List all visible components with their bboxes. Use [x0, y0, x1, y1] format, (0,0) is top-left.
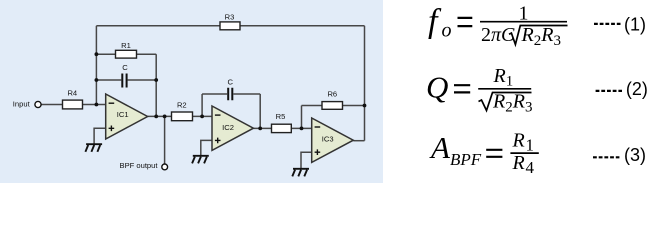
- junction C2 branch / R2 output: [200, 115, 204, 119]
- op-amp IC3: [312, 118, 354, 162]
- junction R5 / R6 branch: [300, 126, 304, 130]
- svg-text:(2): (2): [626, 79, 648, 99]
- capacitor C1: [122, 63, 128, 88]
- wire R6 branch: [302, 105, 365, 107]
- op-amp IC1 non-inverting pin +: [109, 126, 115, 132]
- svg-text:R2: R2: [177, 101, 187, 110]
- svg-text:o: o: [442, 20, 452, 42]
- wire IC1 plus to ground: [94, 128, 106, 143]
- wire C2 branch left: [202, 93, 227, 95]
- resistor R1: [116, 41, 137, 58]
- wire C2 branch right vertical: [259, 94, 261, 128]
- wire R1 branch: [96, 53, 156, 55]
- svg-text:(3): (3): [624, 145, 646, 165]
- capacitor C1 plates: [122, 74, 126, 88]
- svg-text:R3: R3: [225, 13, 235, 22]
- svg-text:R1: R1: [493, 65, 514, 90]
- op-amp IC1 inverting pin -: [109, 102, 115, 104]
- svg-text:BPF: BPF: [450, 150, 482, 169]
- junction R4 / IC1 inverting input: [95, 103, 99, 107]
- formulas panel: [400, 0, 660, 183]
- resistor R6: [322, 90, 343, 110]
- svg-text:R1: R1: [512, 129, 535, 154]
- svg-text:R4: R4: [67, 89, 77, 98]
- circuit panel background: [0, 0, 383, 183]
- resistor R3: [220, 13, 240, 30]
- junction R6 / right vertical: [363, 104, 367, 108]
- wire IC1 output row: [148, 115, 212, 117]
- equation 3: A_BPF = R1/R4: [429, 129, 646, 177]
- wire right vertical: [364, 26, 366, 141]
- ground IC2: [192, 156, 209, 164]
- op-amp IC2 body: [212, 106, 253, 150]
- svg-text:BPF output: BPF output: [120, 161, 159, 170]
- resistor R5: [272, 112, 292, 132]
- op-amp IC1: [106, 94, 148, 139]
- ground IC1: [85, 144, 102, 152]
- svg-text:IC2: IC2: [222, 123, 234, 132]
- svg-text:C: C: [122, 63, 128, 72]
- capacitor C2: [227, 77, 233, 100]
- wire input to IC1: [41, 104, 105, 106]
- junction IC1 output / feedback: [154, 115, 158, 119]
- ground IC1 teeth: [85, 145, 100, 152]
- wire BPF output drop: [164, 116, 166, 163]
- svg-text:2πC: 2πC: [481, 24, 515, 46]
- wire left vertical: [95, 26, 97, 105]
- op-amp IC3 non-inverting pin +: [315, 149, 321, 155]
- ground IC3: [292, 169, 309, 177]
- equation 2: Q = R1/sqrt(R2R3): [426, 65, 648, 116]
- wire IC3 plus to ground: [301, 152, 312, 168]
- svg-text:R5: R5: [276, 112, 286, 121]
- op-amp IC3 body: [312, 118, 354, 162]
- wire C1 branch left: [96, 79, 121, 81]
- svg-text:Q: Q: [426, 70, 448, 105]
- svg-text:R2R3: R2R3: [521, 24, 561, 49]
- wire top R3 run: [96, 25, 364, 27]
- svg-text:IC3: IC3: [322, 135, 334, 144]
- svg-text:A: A: [429, 130, 451, 165]
- op-amp IC2 non-inverting pin +: [215, 138, 221, 144]
- junction R1 branch / left vertical: [95, 52, 99, 56]
- ground IC2 teeth: [192, 157, 207, 164]
- svg-text:R4: R4: [512, 152, 535, 177]
- wire C2 branch right: [233, 93, 260, 95]
- wire IC2 output row: [253, 127, 311, 129]
- op-amp IC3 inverting pin -: [315, 126, 321, 128]
- resistor R2: [172, 101, 193, 121]
- junction IC2 output / C2 branch: [258, 126, 262, 130]
- capacitor C2 plates: [228, 88, 232, 101]
- svg-text:1: 1: [519, 2, 529, 24]
- svg-text:(1): (1): [624, 14, 646, 34]
- equation 1: fo = 1/(2piC sqrt(R2R3)): [428, 2, 646, 48]
- op-amp IC1 body: [106, 94, 148, 139]
- ground IC2 bar: [193, 155, 209, 157]
- wire IC2 plus to ground: [201, 140, 212, 155]
- op-amp IC2: [212, 106, 253, 150]
- input terminal: [35, 101, 41, 107]
- ground IC1 bar: [86, 143, 102, 145]
- wire C2 branch left vertical: [201, 94, 203, 116]
- ground IC3 teeth: [292, 170, 307, 177]
- wire IC3 output: [353, 140, 364, 142]
- svg-text:R6: R6: [327, 90, 337, 99]
- svg-text:C: C: [227, 77, 233, 86]
- ground IC3 bar: [293, 168, 309, 170]
- op-amp IC2 inverting pin -: [215, 114, 221, 116]
- junction BPF output tap: [163, 115, 167, 119]
- svg-text:Input: Input: [13, 100, 31, 109]
- svg-text:R2R3: R2R3: [492, 91, 532, 116]
- resistor R4: [63, 89, 83, 109]
- junction C1 branch / left vertical: [95, 78, 99, 82]
- svg-text:IC1: IC1: [117, 110, 129, 119]
- junction C1 branch / feedback vertical: [154, 78, 158, 82]
- wire C1 branch right: [128, 79, 157, 81]
- wire R6 branch left vertical: [301, 106, 303, 129]
- BPF output terminal: [162, 164, 168, 170]
- svg-text:R1: R1: [121, 41, 131, 50]
- wire feedback right vertical: [155, 54, 157, 116]
- svg-text:f: f: [428, 3, 442, 40]
